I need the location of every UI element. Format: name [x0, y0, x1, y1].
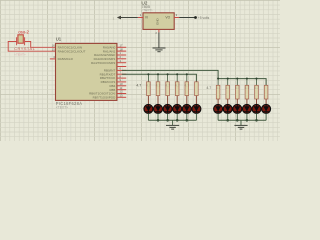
- svg-text:4.7: 4.7: [156, 83, 161, 87]
- svg-text:RA4/T0CKI/CMP2: RA4/T0CKI/CMP2: [91, 61, 116, 65]
- svg-text:U1: U1: [56, 37, 62, 42]
- svg-text:4.7: 4.7: [216, 86, 221, 90]
- svg-text:4.7: 4.7: [184, 83, 189, 87]
- svg-text:4.7: 4.7: [165, 83, 170, 87]
- svg-text:4.7: 4.7: [146, 83, 151, 87]
- svg-text:4.7: 4.7: [175, 83, 180, 87]
- svg-text:VO: VO: [165, 15, 170, 19]
- svg-text:RA6/OSC2/CLKOUT: RA6/OSC2/CLKOUT: [58, 49, 86, 53]
- svg-text:4.7: 4.7: [136, 83, 141, 87]
- svg-text:GND: GND: [155, 18, 159, 26]
- svg-text:VI: VI: [145, 15, 148, 19]
- svg-text:<TEXT>: <TEXT>: [14, 53, 26, 57]
- svg-text:<TEXT>: <TEXT>: [142, 8, 153, 12]
- svg-text:4.7: 4.7: [235, 86, 240, 90]
- svg-text:4.7: 4.7: [206, 86, 211, 90]
- svg-text:4.7: 4.7: [245, 86, 250, 90]
- svg-text:CRYSTAL: CRYSTAL: [14, 46, 35, 51]
- svg-text:RB7/T1OSI/PGD: RB7/T1OSI/PGD: [93, 96, 117, 100]
- svg-text:<TEXT>: <TEXT>: [56, 106, 68, 110]
- svg-text:+5 volts: +5 volts: [198, 16, 210, 20]
- svg-text:RA5/MCLR: RA5/MCLR: [58, 57, 74, 61]
- svg-text:4.7: 4.7: [254, 86, 259, 90]
- svg-text:4.7: 4.7: [225, 86, 230, 90]
- svg-text:oso-2: oso-2: [18, 29, 29, 34]
